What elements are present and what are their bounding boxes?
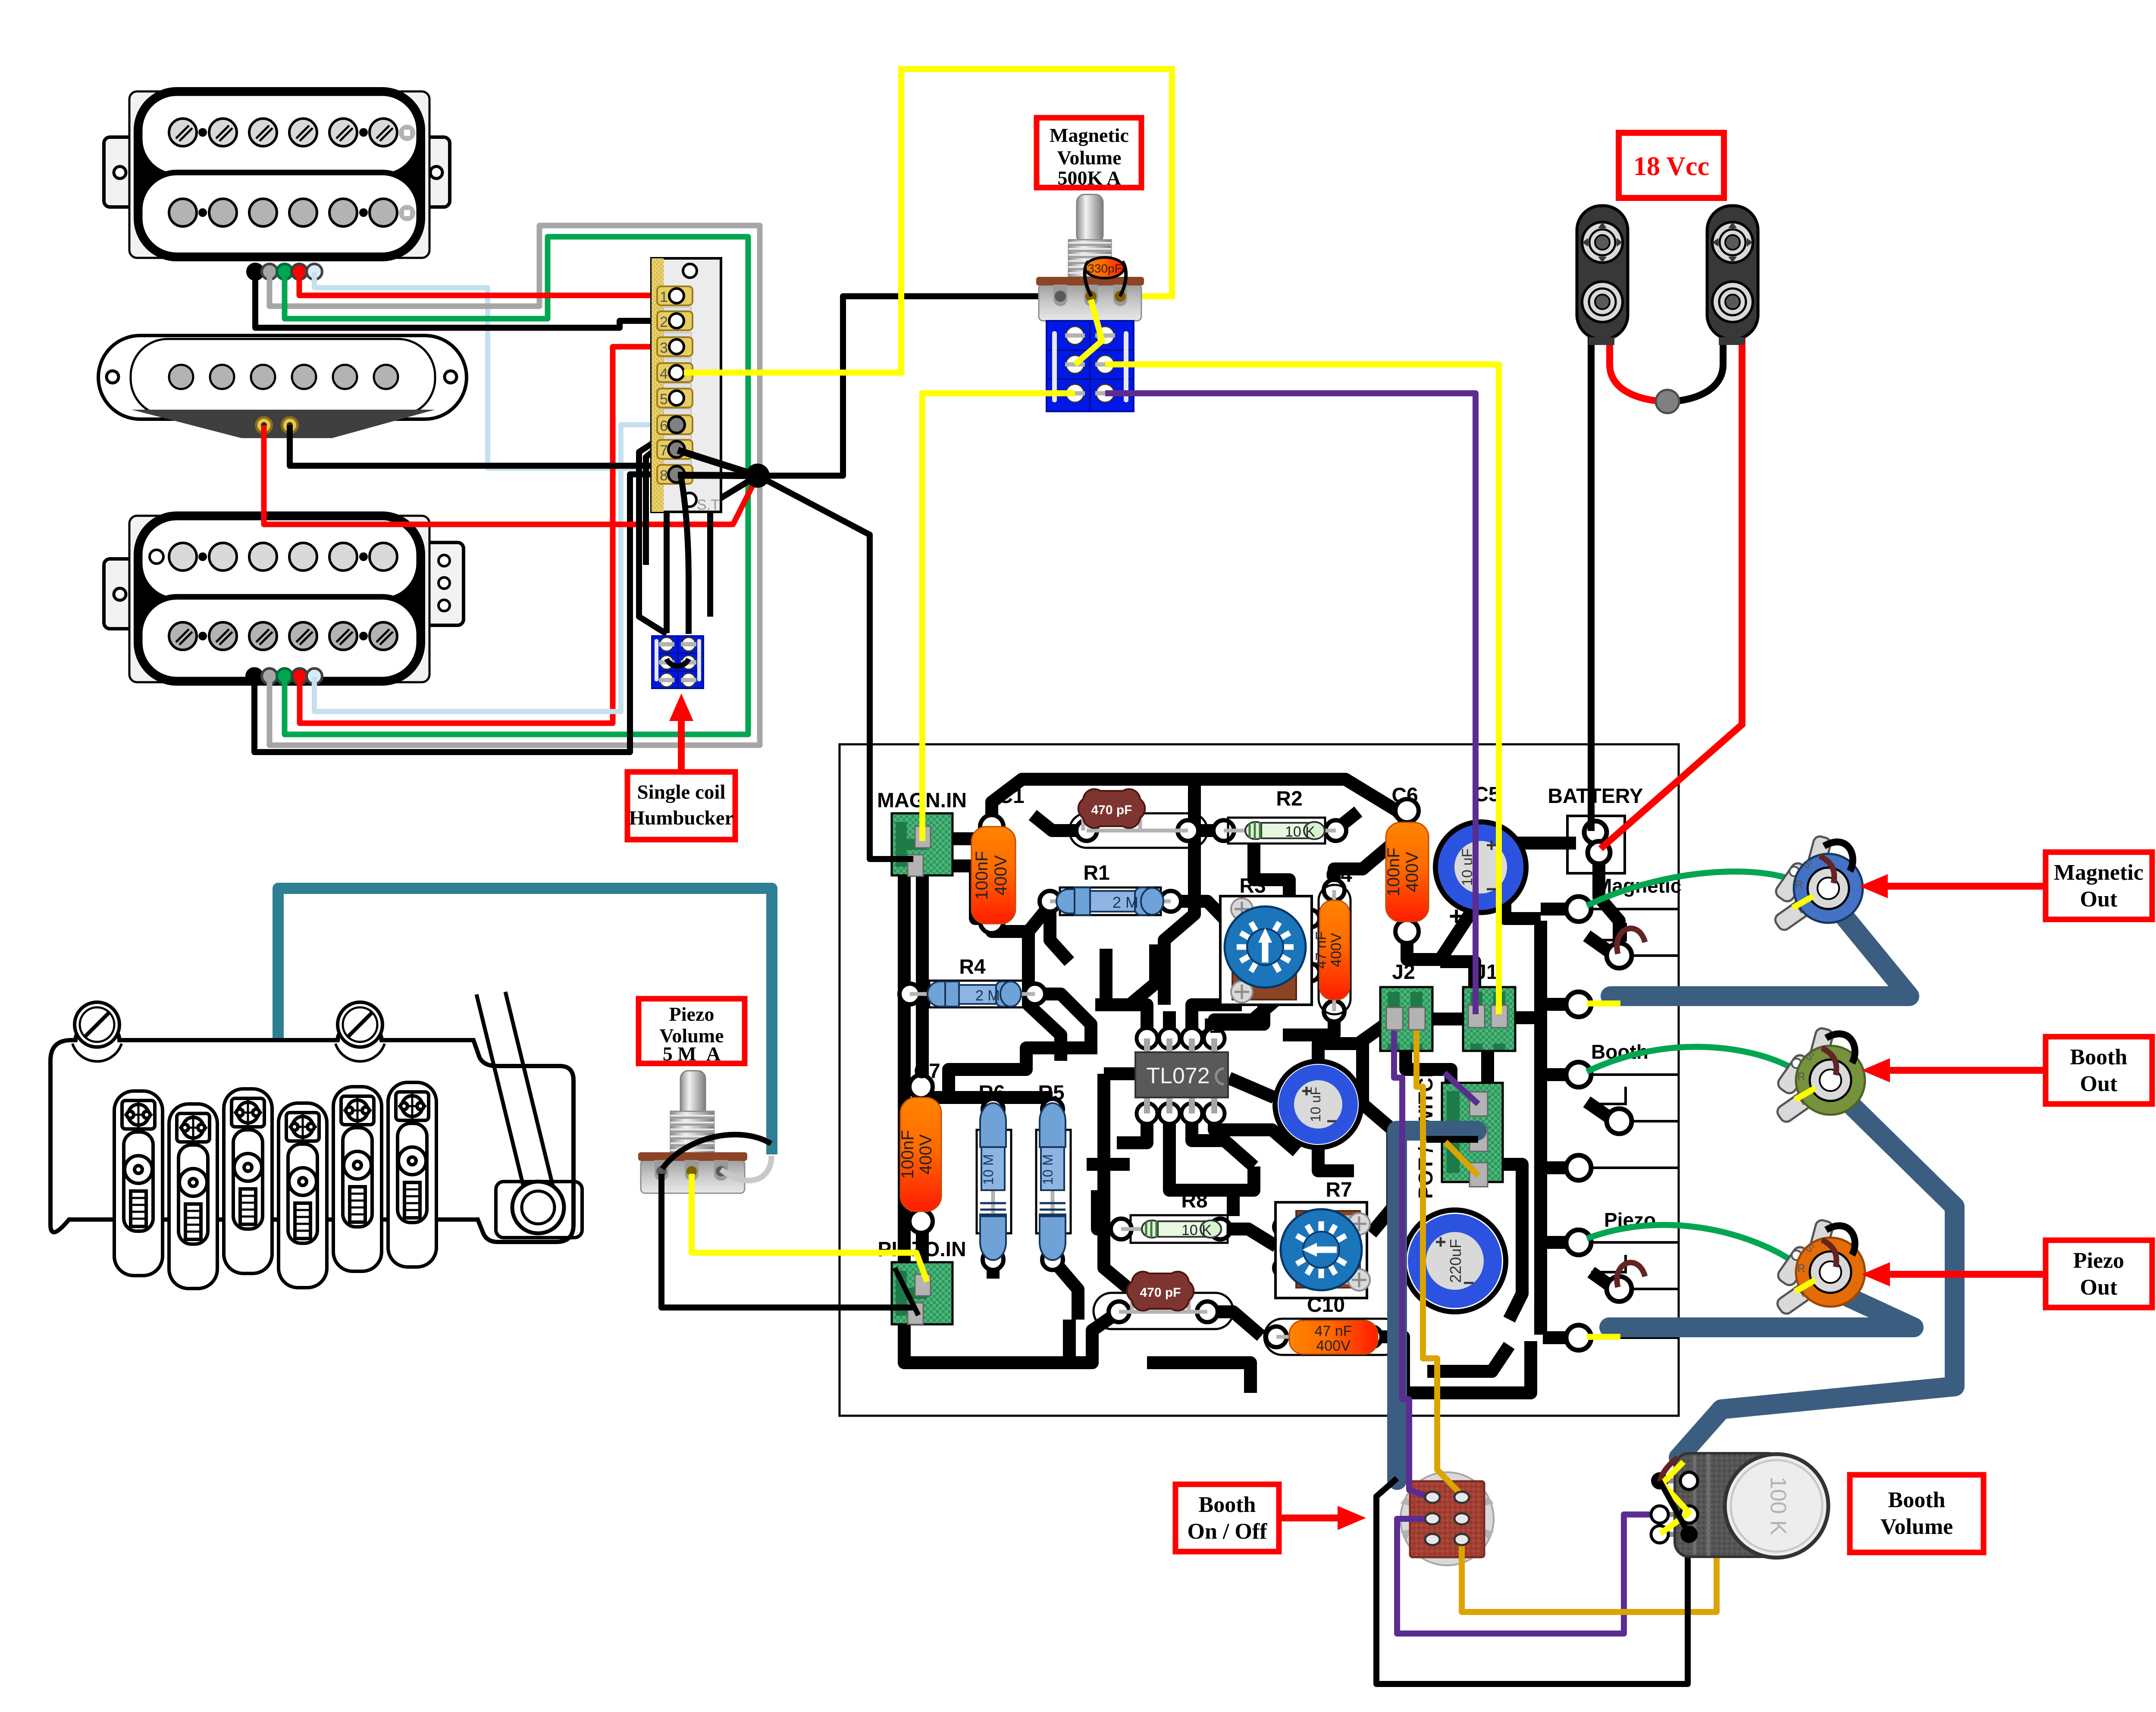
resistor R6 [978,1082,1006,1260]
svg-text:S.T: S.T [697,497,720,513]
series junction node [1656,390,1679,413]
svg-text:R2: R2 [1276,787,1302,810]
MAGN.IN connector [877,789,967,876]
wire H2 black to lug7 [254,474,677,752]
svg-text:100nF: 100nF [898,1130,917,1179]
wire lug8 down [681,479,689,634]
svg-text:400V: 400V [1316,1338,1351,1354]
piezo volume pot [638,1071,747,1193]
trace magn.in to C1 top [953,832,992,845]
svg-text:Out: Out [2080,887,2118,912]
svg-text:J2: J2 [1392,961,1415,984]
lug 5 [657,389,693,408]
trace 470pF1 left [1033,815,1087,831]
svg-text:Volume: Volume [1057,147,1121,169]
brown curl pad8 [1617,1263,1645,1287]
wire H1 black to lug2 [255,273,677,328]
svg-text:TL072: TL072 [1146,1063,1210,1088]
wire white lug3 to teal end [721,1156,771,1181]
trace TL072 pins up [1106,949,1275,1041]
wire purple J2 to booth switch [1394,1031,1430,1497]
wire lug6 black stub [646,430,679,565]
svg-text:4: 4 [660,366,668,382]
trace top rail C1 to C6 [992,779,1407,827]
svg-text:R3: R3 [1239,875,1266,897]
wire teal bridge ground [278,888,772,1154]
extra density traces [1164,785,1194,1005]
trace mid elbows [1087,1074,1135,1164]
trace 470pF1 to R2 [1188,824,1227,837]
wire purple switch to J1 [1105,393,1476,1014]
wire green magnetic [1587,872,1795,906]
svg-text:R: R [1797,1262,1805,1275]
yellow jumper on pot lugs [1661,1462,1689,1533]
svg-text:7: 7 [660,442,668,459]
capacitor C4 [1313,864,1352,1000]
svg-text:100 K: 100 K [1765,1477,1790,1535]
PCB copper traces [892,779,1619,1393]
wire gold J2 to booth switch [1416,1031,1461,1494]
resistor R8 [1142,1189,1221,1239]
trace J1-J2 link [1432,1018,1535,1019]
trace pad stubs [1541,909,1574,1338]
svg-text:Single coil: Single coil [637,781,726,803]
svg-text:470 pF: 470 pF [1091,803,1132,817]
yellow stub piezo cable [1587,1334,1620,1340]
DPDT jumper wire [667,659,689,666]
capacitor C5 electrolytic [1435,783,1526,931]
trace R4 right to mid [1035,994,1091,1054]
trimmer R3 [1220,875,1312,1005]
capacitor C7 [898,1060,941,1211]
svg-text:2 M: 2 M [975,988,1000,1004]
push-pull switch block [1047,321,1134,411]
booth volume pot [1651,1453,1828,1558]
svg-text:Booth: Booth [1199,1493,1256,1517]
wire yellow lug4 to pot loop [684,69,1172,373]
output pads [1566,897,1632,1350]
svg-text:R6: R6 [978,1082,1005,1104]
svg-text:500K A: 500K A [1058,167,1121,189]
wire yellow switch to J1 [1105,364,1499,1014]
connector POT/SWITCH [1414,1063,1503,1199]
cable magnetic jack to PCB [1611,903,1909,996]
svg-text:C4: C4 [1326,864,1352,887]
wire gold stub pot/switch [1445,1142,1478,1176]
wire yellow pot wiper to switch [1075,300,1102,364]
label Piezo Volume 5M A [639,999,745,1063]
trace R1 left down [1050,906,1069,962]
wire junction to magnetic volume pot [758,296,1059,476]
lug 7 [657,440,693,459]
H2 left mounting ear [104,559,138,629]
humbucker H1 (neck) [104,87,450,279]
svg-text:220uF: 220uF [1447,1239,1464,1283]
cable booth jack to booth volume [1679,1091,1955,1458]
svg-text:470 pF: 470 pF [1140,1286,1181,1300]
resistor R5 [1038,1082,1065,1260]
H2 bottom coil (screws) [140,597,419,680]
svg-text:C7: C7 [914,1060,940,1083]
svg-text:Piezo: Piezo [2073,1248,2124,1273]
PCB outline [840,744,1679,1416]
svg-text:Booth: Booth [2070,1045,2128,1069]
trace 470pF2 to C10 [1207,1312,1261,1336]
gray component leads [910,811,1371,1337]
svg-text:1: 1 [660,289,668,305]
label Magnetic Volume 500K A [1037,118,1141,188]
svg-text:Humbucker: Humbucker [629,807,734,829]
wire H2 red to lug3 [300,347,677,723]
svg-text:47 nF: 47 nF [1313,931,1329,969]
wire yellow switch to MAGN.IN [922,393,1075,841]
svg-text:R: R [1795,878,1803,891]
trace TL072 pins down [1117,1108,1297,1166]
lug 1 [657,286,693,305]
resistor R1 [1056,862,1163,915]
lug 2 [657,311,693,330]
svg-text:100nF: 100nF [972,851,991,900]
svg-text:3: 3 [660,340,668,356]
capacitor C10 [1289,1294,1378,1354]
wire black stub pot/switch [1426,1136,1478,1143]
wire green booth [1587,1047,1796,1072]
svg-text:18 Vcc: 18 Vcc [1633,152,1709,181]
label 18 Vcc [1619,133,1724,198]
wire H2 light blue to lug6 [314,425,677,712]
wire H1 green loop to H2 green [285,237,748,734]
H2 lead dots [247,668,262,684]
trace C6 bottom to C5 [1407,912,1471,959]
black jumper on pot lugs [1660,1481,1689,1534]
svg-text:Volume: Volume [1880,1514,1953,1539]
cable pot/switch to booth on/off [1397,1131,1477,1480]
battery clip right [1707,206,1758,345]
svg-text:8: 8 [660,467,668,484]
label Booth Out [1861,1037,2152,1104]
trace R5 bottom [1053,1260,1078,1320]
svg-text:6: 6 [660,418,668,434]
tremolo bridge plate [50,1023,573,1242]
wire gold switch to booth pot [1462,1515,1717,1612]
cable piezo jack to PCB [1609,1290,1914,1327]
trace C7 to piezo.in [916,1221,929,1283]
H2 baseplate [129,516,429,682]
wire lug6 black to DPDT [639,428,677,634]
magnetic volume pot [1036,194,1144,321]
svg-text:Piezo: Piezo [669,1003,714,1025]
svg-text:5: 5 [660,391,668,408]
lug 3 [657,337,693,356]
svg-text:R: R [1797,1070,1805,1083]
trace R6 R5 tops [922,1091,1053,1104]
trace R1 right to R3 [1177,901,1232,927]
whammy bar [476,992,554,1194]
single coil pickup (middle) [98,336,467,438]
connector J1 [1463,961,1515,1051]
wire lug8 to junction [678,475,758,476]
capacitor 470pF a [1078,789,1145,828]
wire black lug1 to piezo.in [661,1174,913,1308]
svg-text:Out: Out [2080,1072,2118,1096]
PIEZO.IN connector [877,1238,966,1324]
resistor R4 [928,956,1021,1007]
wire junction to MAGN.IN [758,476,913,859]
lug 4 [657,363,693,382]
H1 baseplate [129,91,429,258]
330pF capacitor [1085,257,1124,278]
connector J2 [1380,961,1432,1051]
BATTERY pads [1548,785,1643,873]
humbucker H2 (bridge) [104,511,464,686]
svg-text:10 M: 10 M [1040,1154,1056,1185]
H2 top coil (slugs) [140,517,419,600]
svg-text:C1: C1 [998,785,1024,808]
battery clip wires [1588,334,1595,831]
svg-text:100nF: 100nF [1384,847,1403,896]
trace TL072 to C9 [1229,1078,1274,1097]
trace C5 to battery [1514,837,1576,850]
lug 6 [657,415,693,434]
svg-text:R8: R8 [1181,1189,1207,1212]
svg-text:On / Off: On / Off [1188,1519,1268,1544]
trace C1 bottom to R1 [992,903,1051,931]
trace R6 bottom [987,1260,1000,1279]
wire black teal-end to lug1 [662,1135,771,1169]
H1 right mounting ear [420,137,450,207]
svg-text:C6: C6 [1391,784,1418,807]
H1 top coil (screws) [140,93,419,176]
label Booth On/Off [1175,1484,1366,1552]
wire purple switch to booth pot [1397,1514,1656,1634]
svg-text:C10: C10 [1307,1294,1345,1317]
trace R4 left stub [904,988,910,1000]
svg-text:R7: R7 [1326,1179,1352,1201]
wire purple stub pot/switch [1445,1073,1478,1104]
svg-text:400V: 400V [1328,933,1344,967]
bridge mount screw right [338,1002,382,1047]
svg-text:Out: Out [2080,1275,2118,1300]
capacitor C1 [971,785,1025,924]
jack magnetic out [1773,835,1863,932]
battery clip left [1577,206,1628,345]
wire junction diag down-left [710,476,758,617]
hatched spacers [664,307,691,472]
coil-split DPDT switch [652,636,703,688]
brown stub cable to pot [1660,1458,1677,1482]
jack booth out [1775,1027,1865,1124]
wire H1 gray loop to H2 gray [269,226,760,745]
svg-text:400V: 400V [916,1134,935,1175]
label Piezo Out [1861,1240,2152,1308]
trace R3 bottom [1216,1003,1264,1024]
trace R2 right to rail [1335,812,1358,831]
H1 left mounting ear [104,137,138,207]
svg-text:R1: R1 [1083,862,1109,884]
output pad thin leads [1591,909,1679,1338]
saddles [114,1082,436,1289]
wire H1 red to lug1 [299,273,677,295]
trace battery to out pad [1599,858,1619,953]
svg-text:BATTERY: BATTERY [1548,785,1643,808]
svg-text:5 M A: 5 M A [663,1043,721,1065]
trace pot/switch down [1503,1164,1522,1320]
svg-text:330pF: 330pF [1087,262,1122,275]
H2 right bracket [425,542,464,625]
svg-text:R5: R5 [1038,1082,1064,1104]
svg-text:R4: R4 [959,956,986,978]
capacitor 470pF b [1127,1272,1194,1311]
svg-text:+: + [1449,902,1464,931]
H1 lead dots [248,264,263,279]
svg-text:PIEZO.IN: PIEZO.IN [877,1238,966,1261]
bridge mount screw left [75,1002,119,1047]
label Booth Volume [1850,1475,1984,1552]
label Magnetic Out [1859,852,2152,919]
svg-text:10 M: 10 M [981,1154,996,1185]
svg-text:Booth: Booth [1888,1488,1946,1512]
trace output ladder vertical [1534,921,1547,1335]
wire green piezo [1587,1225,1795,1263]
trace C4 verticals [1298,845,1391,1035]
yellow stub magnetic cable [1587,1000,1620,1007]
capacitor C6 [1384,784,1429,922]
trace R8 [1097,1190,1276,1246]
pickup selector switch S.T [652,258,721,512]
330pF cap leads [1085,261,1091,296]
resistor outline boxes [929,813,1402,1355]
trace magn.in to C1 bottom [949,866,992,919]
trace left rail [892,858,1119,1363]
svg-text:400V: 400V [1403,852,1422,892]
op-amp U1 TL072 [1135,1015,1228,1124]
brown curl pad2 [1617,928,1645,954]
trace C10 right to bottom right [1371,1337,1531,1393]
svg-text:2 M: 2 M [1112,894,1138,911]
svg-text:2: 2 [660,314,668,330]
wire yellow lug2 to piezo.in [692,1174,927,1282]
booth on/off switch [1401,1472,1494,1565]
through-hole pads [899,799,1419,1347]
capacitor C8 electrolytic [1404,1210,1506,1312]
wire SC black to DPDT [290,425,667,633]
booth switch lugs [1425,1492,1469,1545]
svg-text:10 K: 10 K [1181,1222,1212,1239]
wire lug7 to junction [678,450,758,476]
svg-text:U1: U1 [1194,1015,1220,1038]
label Single coil Humbucker [627,693,735,840]
trace J1 down to pot/switch [1406,1051,1488,1085]
svg-text:Magnetic: Magnetic [2054,860,2143,885]
svg-text:10 K: 10 K [1285,824,1315,840]
svg-text:47 nF: 47 nF [1315,1323,1352,1339]
trace magn.in pad2 to C7 [916,871,929,1087]
trace C9 links [1318,1022,1388,1171]
resistor R2 [1245,787,1325,840]
svg-text:Magnetic: Magnetic [1050,124,1129,146]
H1 bottom coil (slugs) [140,172,419,255]
wire SC red to junction [264,425,758,524]
jack piezo out [1775,1219,1865,1316]
wire black cable-end to booth pot [1376,1478,1688,1684]
capacitor C9 electrolytic [1275,1061,1361,1148]
junction node [746,464,770,488]
svg-text:400V: 400V [991,855,1010,896]
trimmer R7 [1275,1179,1370,1298]
lug 8 [657,465,693,484]
wire H1 light blue to lug8 [314,273,677,468]
